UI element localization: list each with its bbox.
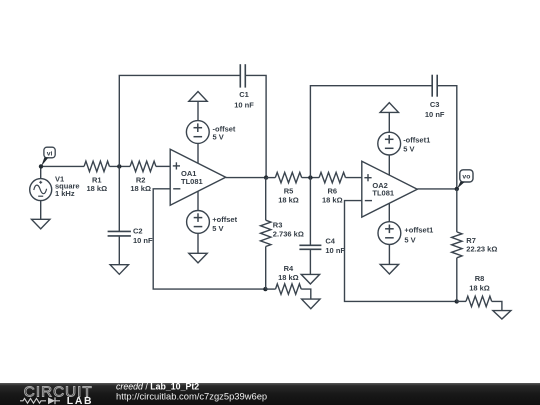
svg-text:vo: vo xyxy=(462,174,470,181)
svg-text:+offset: +offset xyxy=(212,215,237,224)
node vi label xyxy=(41,147,55,166)
svg-text:LAB: LAB xyxy=(67,396,93,405)
resistor R4 xyxy=(265,264,310,299)
svg-text:10 nF: 10 nF xyxy=(133,236,153,245)
svg-text:18 kΩ: 18 kΩ xyxy=(278,273,299,282)
svg-text:5 V: 5 V xyxy=(212,224,223,233)
wire node C to C3 (top rail 2) xyxy=(310,86,432,178)
capacitor C2 xyxy=(108,227,153,265)
wire R6 to OA2 +in xyxy=(346,177,362,179)
wire OA2 V- pin xyxy=(388,203,390,222)
node vi junction xyxy=(39,164,43,168)
svg-text:+offset1: +offset1 xyxy=(404,226,433,235)
wire node A to C1 (top rail 1) xyxy=(119,75,240,166)
svg-text:5 V: 5 V xyxy=(213,133,224,142)
voltage source +offset1 xyxy=(378,222,433,245)
node OA1 output junction xyxy=(264,175,268,179)
node B junction xyxy=(263,287,267,291)
capacitor C4 xyxy=(299,236,345,274)
svg-text:5 V: 5 V xyxy=(403,144,414,153)
svg-text:C3: C3 xyxy=(430,100,440,109)
svg-text:R7: R7 xyxy=(466,236,476,245)
wire OA2 feedback xyxy=(345,201,457,302)
footer title xyxy=(116,382,199,392)
op-amp OA1 xyxy=(170,149,226,205)
capacitor C3 xyxy=(425,75,445,120)
wire +offset to ground xyxy=(197,233,199,253)
ground (C2) xyxy=(110,265,128,275)
svg-text:-offset1: -offset1 xyxy=(403,136,430,145)
resistor R2 xyxy=(130,161,156,193)
svg-text:2.736 kΩ: 2.736 kΩ xyxy=(273,230,304,239)
svg-text:18 kΩ: 18 kΩ xyxy=(278,196,299,205)
svg-text:18 kΩ: 18 kΩ xyxy=(469,283,490,292)
svg-text:18 kΩ: 18 kΩ xyxy=(86,184,107,193)
svg-text:R4: R4 xyxy=(284,264,294,273)
wire OA1 output to R5 xyxy=(266,177,275,179)
svg-text:TL081: TL081 xyxy=(372,189,394,198)
svg-text:vi: vi xyxy=(47,150,53,157)
ground (R8) xyxy=(493,311,511,319)
capacitor C1 xyxy=(234,64,254,110)
wire OA1 V+ pin xyxy=(197,143,199,163)
ground (+offset) xyxy=(189,253,207,263)
ground (+offset1) xyxy=(380,264,398,274)
voltage source -offset xyxy=(186,121,236,144)
ground (R4) xyxy=(302,299,320,309)
wire OA1 feedback xyxy=(153,189,265,289)
node vo junction xyxy=(455,187,459,191)
resistor R1 xyxy=(84,161,109,193)
svg-text:C2: C2 xyxy=(133,227,143,236)
footer url xyxy=(116,391,267,402)
footer bar xyxy=(0,383,540,405)
resistor R3 xyxy=(261,178,304,290)
svg-text:18 kΩ: 18 kΩ xyxy=(322,196,343,205)
wire -offset to power flag xyxy=(197,101,199,120)
wire -offset1 to power flag xyxy=(388,112,390,132)
svg-text:22.23 kΩ: 22.23 kΩ xyxy=(466,245,497,254)
svg-text:5 V: 5 V xyxy=(404,235,415,244)
svg-text:10 nF: 10 nF xyxy=(425,110,445,119)
CircuitLab logo xyxy=(20,384,93,405)
ground (C4) xyxy=(301,274,319,284)
wire R5 to R6 xyxy=(302,177,319,179)
svg-text:18 kΩ: 18 kΩ xyxy=(130,184,151,193)
voltage source +offset xyxy=(187,211,238,234)
svg-text:R3: R3 xyxy=(273,221,283,230)
wire C1 to OA1 output (top rail 1) xyxy=(245,75,266,177)
resistor R6 xyxy=(319,172,345,204)
wire C3 to OA2 output (top rail 2) xyxy=(437,86,457,189)
wire +offset1 to ground xyxy=(388,245,390,265)
resistor R7 xyxy=(452,189,498,302)
node vo label xyxy=(457,170,473,189)
node C junction xyxy=(308,175,312,179)
svg-text:R5: R5 xyxy=(284,187,294,196)
wire V1 to R1 xyxy=(41,165,84,167)
voltage source -offset1 xyxy=(378,132,430,155)
wire OA1 V- pin xyxy=(197,191,199,210)
voltage source V1 xyxy=(30,166,80,219)
wire R2 to OA1 +in xyxy=(156,165,170,167)
op-amp OA2 xyxy=(362,161,418,217)
svg-text:TL081: TL081 xyxy=(181,177,203,186)
svg-text:R1: R1 xyxy=(92,175,102,184)
resistor R5 xyxy=(275,172,301,204)
svg-text:10 nF: 10 nF xyxy=(325,246,345,255)
svg-text:C1: C1 xyxy=(239,90,249,99)
svg-text:1 kHz: 1 kHz xyxy=(55,189,75,198)
svg-text:10 nF: 10 nF xyxy=(234,101,254,110)
resistor R8 xyxy=(457,274,502,311)
wire OA1 output xyxy=(226,177,266,179)
power flag (OA2 V+) xyxy=(380,103,398,113)
svg-text:R6: R6 xyxy=(328,187,338,196)
svg-text:http://circuitlab.com/c7zgz5p3: http://circuitlab.com/c7zgz5p39w6ep xyxy=(116,391,267,402)
ground (V1) xyxy=(32,219,50,229)
svg-text:R2: R2 xyxy=(136,175,146,184)
svg-text:R8: R8 xyxy=(475,274,485,283)
power flag (OA1 V+) xyxy=(189,92,207,102)
wire OA2 output xyxy=(417,188,457,190)
svg-text:C4: C4 xyxy=(325,236,335,245)
wire R1 to R2 xyxy=(109,165,130,167)
wire node A to C2 xyxy=(118,166,120,231)
node A junction xyxy=(117,164,121,168)
wire OA2 V+ pin xyxy=(388,155,390,175)
wire node C to C4 xyxy=(309,178,311,246)
node D junction xyxy=(455,299,459,303)
